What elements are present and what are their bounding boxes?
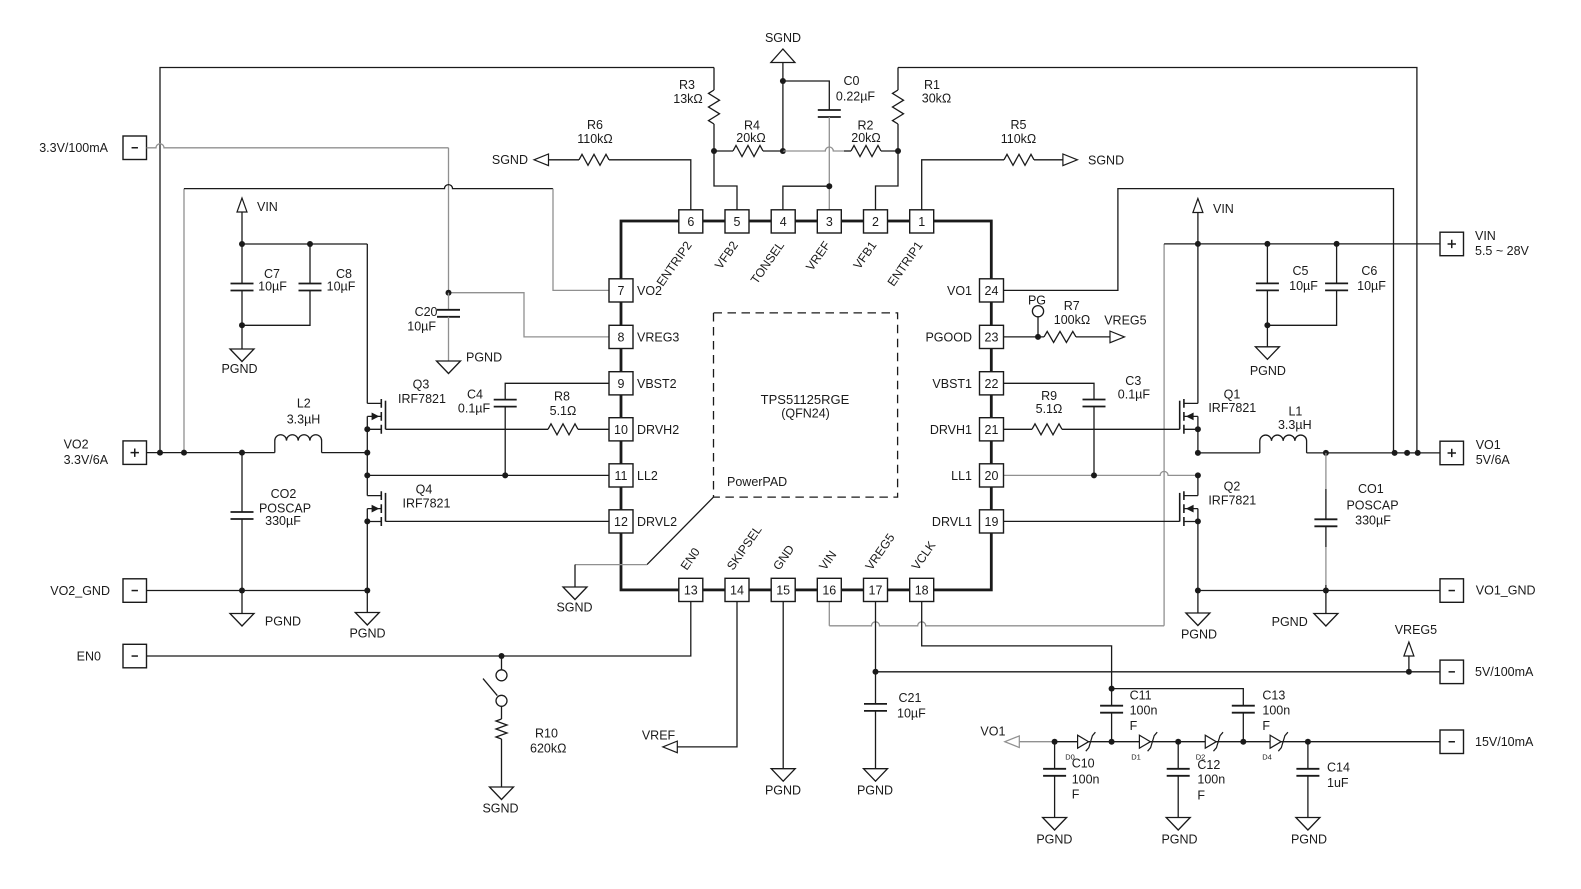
- wire L2 to switch node: [322, 452, 368, 454]
- resistor R10: [501, 706, 503, 719]
- wire PGOOD pin 23 to R7: [1003, 336, 1044, 338]
- svg-text:3.3µH: 3.3µH: [1278, 418, 1312, 432]
- svg-text:9: 9: [618, 377, 625, 391]
- svg-text:1uF: 1uF: [1327, 776, 1349, 790]
- svg-text:100kΩ: 100kΩ: [1054, 313, 1090, 327]
- node C3/LL1 junction: [1091, 472, 1097, 478]
- wire VO2_GND row: [147, 590, 368, 592]
- capacitor C7: [241, 244, 243, 284]
- capacitor C3: [1003, 383, 1094, 399]
- node C7 top: [239, 241, 245, 247]
- svg-text:VO1_GND: VO1_GND: [1476, 584, 1536, 598]
- PGND symbol below C21: [864, 769, 888, 782]
- capacitor C0: [783, 81, 829, 110]
- capacitor C13: [1232, 706, 1255, 713]
- wire TONSEL pin 4 to VREF: [783, 186, 829, 210]
- PGND symbol below Q2: [1197, 591, 1199, 614]
- wire VIN pin 16 to VIN rail (gray) with hops: [828, 602, 830, 626]
- IC pin 17 box: [864, 578, 888, 601]
- svg-text:15V/10mA: 15V/10mA: [1475, 735, 1534, 749]
- node Q4 source junction: [364, 518, 370, 524]
- IC U1 TPS51125RGE body: [621, 221, 991, 590]
- wire L1 to VO1 terminal: [1307, 452, 1440, 454]
- svg-text:10µF: 10µF: [897, 707, 926, 721]
- svg-text:10µF: 10µF: [407, 320, 436, 334]
- svg-text:VO1: VO1: [947, 284, 972, 298]
- svg-text:D4: D4: [1262, 753, 1272, 762]
- node D0 anode: [1052, 739, 1058, 745]
- svg-text:VIN: VIN: [257, 200, 278, 214]
- svg-text:110kΩ: 110kΩ: [1001, 132, 1037, 146]
- capacitor C10: [1054, 742, 1056, 769]
- svg-text:PGND: PGND: [1036, 832, 1072, 846]
- svg-text:CO1: CO1: [1358, 482, 1384, 496]
- capacitor C20: [448, 293, 450, 310]
- wire VO2 feedback top rail: [160, 68, 714, 453]
- wire 3.3V to C20 node (gray) with hop: [147, 144, 449, 148]
- svg-text:10µF: 10µF: [327, 280, 356, 294]
- svg-text:110kΩ: 110kΩ: [577, 132, 613, 146]
- svg-text:5.1Ω: 5.1Ω: [550, 404, 577, 418]
- wire R1 to VFB1 pin 2: [876, 151, 899, 210]
- svg-text:330µF: 330µF: [1355, 514, 1391, 528]
- svg-text:100n: 100n: [1130, 704, 1158, 718]
- svg-text:VO2: VO2: [637, 284, 662, 298]
- svg-text:PGND: PGND: [265, 615, 301, 629]
- svg-text:19: 19: [985, 515, 999, 529]
- wire VIN rail right: [1164, 243, 1440, 245]
- svg-text:SGND: SGND: [765, 31, 801, 45]
- svg-text:IRF7821: IRF7821: [403, 497, 451, 511]
- diode D1: [1139, 735, 1150, 748]
- node VO2 rail taps: [157, 450, 163, 456]
- node C13 bottom: [1240, 739, 1246, 745]
- IC pin 11 box: [609, 464, 633, 487]
- resistor R7: [1044, 331, 1076, 342]
- svg-text:VREG5: VREG5: [1395, 623, 1437, 637]
- svg-text:DRVL1: DRVL1: [932, 515, 972, 529]
- svg-text:10µF: 10µF: [1357, 279, 1386, 293]
- wire VO1 feedback top rail: [898, 68, 1417, 453]
- svg-text:C6: C6: [1361, 264, 1377, 278]
- IC pin 8 box: [609, 325, 633, 348]
- node LL2/switch junction: [364, 472, 370, 478]
- svg-text:VO2_GND: VO2_GND: [50, 584, 110, 598]
- VIN arrow symbol right: [1193, 199, 1203, 213]
- IC pin 13 box: [679, 578, 703, 601]
- resistor R4: [714, 150, 733, 152]
- resistor R6: [549, 159, 580, 161]
- svg-text:100n: 100n: [1197, 773, 1225, 787]
- svg-text:5V/100mA: 5V/100mA: [1475, 665, 1534, 679]
- IC pin 6 box: [679, 210, 703, 233]
- terminal VIN +: [1440, 232, 1464, 256]
- wire VREG3 node to pin 8 (gray): [449, 293, 610, 337]
- svg-text:Q2: Q2: [1224, 479, 1241, 493]
- svg-text:5.5 ~ 28V: 5.5 ~ 28V: [1475, 244, 1530, 258]
- svg-text:0.22µF: 0.22µF: [836, 90, 876, 104]
- svg-text:SGND: SGND: [1088, 154, 1124, 168]
- node L1/switch junction: [1195, 450, 1201, 456]
- svg-text:SGND: SGND: [482, 802, 518, 816]
- wire ENTRIP1 pin 1 to R5: [922, 160, 1004, 210]
- PGND symbol below C20: [437, 361, 461, 374]
- IC pin 4 box: [771, 210, 795, 233]
- svg-text:DRVL2: DRVL2: [637, 515, 677, 529]
- wire VO1 arrow to D0 (gray): [1019, 741, 1054, 743]
- svg-text:F: F: [1072, 788, 1080, 802]
- svg-text:C0: C0: [844, 74, 860, 88]
- svg-text:23: 23: [985, 331, 999, 345]
- svg-text:PGND: PGND: [349, 627, 385, 641]
- svg-text:C14: C14: [1327, 761, 1350, 775]
- svg-text:20kΩ: 20kΩ: [851, 131, 881, 145]
- resistor R9: [1003, 428, 1032, 430]
- svg-text:0.1µF: 0.1µF: [458, 402, 491, 416]
- svg-text:22: 22: [985, 377, 999, 391]
- wire VO2 row to L2: [147, 452, 275, 454]
- diode D2: [1205, 735, 1216, 748]
- PGND symbol below C10: [1043, 818, 1067, 831]
- svg-text:17: 17: [869, 584, 883, 598]
- svg-text:C20: C20: [415, 305, 438, 319]
- wire VO1 pin 24 feedback: [1003, 189, 1394, 453]
- svg-text:VREF: VREF: [642, 729, 676, 743]
- transistor Q2 IRF7821: [1184, 496, 1198, 522]
- node PG junction: [1035, 334, 1041, 340]
- svg-text:PGND: PGND: [1291, 832, 1327, 846]
- svg-text:TPS51125RGE: TPS51125RGE: [761, 392, 850, 407]
- IC pin 21 box: [980, 418, 1004, 441]
- svg-text:F: F: [1130, 719, 1138, 733]
- capacitor C14: [1307, 742, 1309, 769]
- transistor Q1 IRF7821: [1184, 403, 1198, 429]
- PGND symbol below C12: [1166, 818, 1190, 831]
- svg-text:PGND: PGND: [1250, 364, 1286, 378]
- resistor R5: [1004, 154, 1034, 165]
- SGND symbol below R10: [490, 787, 514, 800]
- svg-text:(QFN24): (QFN24): [781, 407, 830, 421]
- resistor R2 with wire hop over VREF: [783, 147, 844, 151]
- PG pull-up circle: [1037, 317, 1039, 337]
- IC pin 22 box: [980, 372, 1004, 395]
- wire LL2 pin 11 to switch node: [367, 474, 609, 476]
- svg-text:C13: C13: [1262, 689, 1285, 703]
- svg-text:PGND: PGND: [1161, 832, 1197, 846]
- transistor Q3 IRF7821: [367, 403, 381, 429]
- svg-text:100n: 100n: [1072, 773, 1100, 787]
- wire Q3 gate to R8: [386, 428, 549, 430]
- svg-text:R9: R9: [1041, 389, 1057, 403]
- PGND symbol below CO1: [1325, 591, 1327, 614]
- PGND symbol below C14: [1296, 818, 1320, 831]
- PGND symbol below C5/C6: [1255, 347, 1279, 360]
- IC pin 5 box: [725, 210, 749, 233]
- svg-text:CO2: CO2: [271, 487, 297, 501]
- svg-text:D1: D1: [1131, 753, 1141, 762]
- svg-text:C4: C4: [467, 388, 483, 402]
- node VREF/TONSEL junction: [826, 183, 832, 189]
- wire EN0 to switch: [501, 656, 503, 670]
- wire VIN rail to Q3 drain: [366, 244, 368, 403]
- wire C5 to PGND: [1266, 325, 1268, 347]
- svg-text:R5: R5: [1011, 118, 1027, 132]
- svg-text:R8: R8: [554, 390, 570, 404]
- IC pin 3 box: [817, 210, 841, 233]
- svg-text:5V/6A: 5V/6A: [1476, 453, 1511, 467]
- svg-text:C21: C21: [899, 691, 922, 705]
- wire C11 to C13 top rail: [1112, 689, 1244, 706]
- node VREG5/C21 junction: [873, 669, 879, 675]
- svg-text:10µF: 10µF: [258, 280, 287, 294]
- wire VREF net C0 to pin 3 (gray): [828, 117, 830, 210]
- svg-text:VO1: VO1: [1476, 438, 1501, 452]
- IC pin 12 box: [609, 510, 633, 533]
- svg-text:24: 24: [985, 284, 999, 298]
- svg-text:2: 2: [872, 215, 879, 229]
- node C14 top: [1305, 739, 1311, 745]
- IC pin 24 box: [980, 279, 1004, 302]
- svg-text:7: 7: [618, 284, 625, 298]
- svg-text:100n: 100n: [1262, 704, 1290, 718]
- svg-text:8: 8: [618, 331, 625, 345]
- IC U1 PowerPAD dashed outline: [714, 313, 898, 497]
- capacitor CO1 POSCAP: [1325, 453, 1327, 489]
- wire Q4 source to PGND row: [366, 521, 368, 590]
- node R3/R4 junction: [711, 148, 717, 154]
- wire DRVL1 pin 19 to Q2 gate: [1003, 520, 1180, 522]
- svg-text:Q4: Q4: [416, 483, 433, 497]
- svg-text:VIN: VIN: [1213, 202, 1234, 216]
- wire LL1 pin 20 to switch node (gray) with hop: [1003, 471, 1198, 475]
- node Q1 source junction: [1195, 426, 1201, 432]
- svg-text:C3: C3: [1125, 374, 1141, 388]
- svg-text:5.1Ω: 5.1Ω: [1036, 402, 1063, 416]
- node EN0 switch junction: [499, 653, 505, 659]
- terminal 5V/100mA -: [1440, 660, 1464, 684]
- node C4/LL2 junction: [502, 472, 508, 478]
- capacitor C21: [875, 672, 877, 704]
- svg-text:VBST1: VBST1: [932, 377, 972, 391]
- node Q2 source junction: [1195, 518, 1201, 524]
- node SGND/C0 junction: [780, 78, 786, 84]
- node C6 top: [1334, 241, 1340, 247]
- IC pin 19 box: [980, 510, 1004, 533]
- IC pin 23 box: [980, 325, 1004, 348]
- node Q1 drain tap: [1195, 241, 1201, 247]
- node Q4 source bottom: [364, 588, 370, 594]
- wire VIN arrow to rail: [1197, 213, 1199, 244]
- node CO2 bottom: [239, 588, 245, 594]
- svg-text:POSCAP: POSCAP: [1346, 499, 1398, 513]
- svg-text:PGND: PGND: [1181, 628, 1217, 642]
- wire Q4 gate to DRVL2 pin 12: [386, 520, 610, 522]
- svg-text:VO1: VO1: [980, 725, 1005, 739]
- IC pin 18 box: [910, 578, 934, 601]
- IC pin 15 box: [771, 578, 795, 601]
- svg-text:VREG3: VREG3: [637, 330, 679, 344]
- svg-text:Q3: Q3: [413, 378, 430, 392]
- svg-text:IRF7821: IRF7821: [398, 392, 446, 406]
- wire PowerPAD to SGND (gray): [575, 564, 647, 566]
- wire switch node to Q4 drain: [366, 453, 368, 496]
- node CO1 bottom: [1323, 588, 1329, 594]
- svg-text:PowerPAD: PowerPAD: [727, 475, 787, 489]
- svg-text:13kΩ: 13kΩ: [673, 92, 703, 106]
- svg-text:VREG5: VREG5: [1104, 313, 1146, 327]
- svg-text:PG: PG: [1028, 294, 1046, 308]
- svg-text:LL1: LL1: [951, 469, 972, 483]
- svg-text:30kΩ: 30kΩ: [922, 92, 952, 106]
- diode D0: [1078, 735, 1089, 748]
- svg-text:3: 3: [826, 215, 833, 229]
- node C5 bottom: [1264, 322, 1270, 328]
- node LL1/switch junction: [1195, 472, 1201, 478]
- svg-text:R6: R6: [587, 118, 603, 132]
- svg-text:DRVH1: DRVH1: [930, 423, 972, 437]
- svg-text:10µF: 10µF: [1289, 279, 1318, 293]
- svg-text:L2: L2: [297, 397, 311, 411]
- IC pin 10 box: [609, 418, 633, 441]
- svg-text:1: 1: [918, 215, 925, 229]
- wire VREG5 pin 17 to 5V terminal: [875, 602, 877, 672]
- svg-text:VBST2: VBST2: [637, 377, 677, 391]
- svg-text:R3: R3: [679, 78, 695, 92]
- wire R3 to VFB2 pin 5: [714, 151, 737, 210]
- inductor L2: [275, 435, 322, 453]
- terminal VO1_GND -: [1440, 579, 1464, 603]
- svg-text:13: 13: [684, 584, 698, 598]
- wire VO1_GND row: [1198, 590, 1440, 592]
- node R2/R1 junction: [895, 148, 901, 154]
- svg-text:L1: L1: [1288, 404, 1302, 418]
- wire GND pin 15 to PGND: [782, 602, 784, 769]
- switch S1 lever: [483, 679, 497, 696]
- svg-text:PGND: PGND: [466, 351, 502, 365]
- wire R6 to ENTRIP2 pin 6: [609, 160, 691, 210]
- inductor L1: [1198, 452, 1260, 454]
- wire Q2 source to PGND row: [1197, 521, 1199, 590]
- svg-text:6: 6: [687, 215, 694, 229]
- wire EN0 row to pin 13: [147, 602, 691, 656]
- wire SGND to R4/R2 junction: [782, 62, 784, 151]
- wire VCLK pin 18 to C11: [922, 602, 1112, 689]
- svg-text:15: 15: [776, 584, 790, 598]
- node SGND/R4/R2 junction: [780, 148, 786, 154]
- wire Q1 source to switch node: [1197, 429, 1199, 453]
- resistor R8: [548, 424, 578, 435]
- svg-text:14: 14: [730, 584, 744, 598]
- svg-text:C12: C12: [1197, 758, 1220, 772]
- svg-text:20: 20: [985, 469, 999, 483]
- node CO1 top: [1323, 450, 1329, 456]
- PGND symbol below Q4: [366, 591, 368, 613]
- wire switch node to Q2 drain: [1197, 475, 1199, 495]
- capacitor C11: [1111, 689, 1113, 706]
- switch S1 contacts: [496, 670, 507, 681]
- svg-text:330µF: 330µF: [265, 514, 301, 528]
- IC pin 14 box: [725, 578, 749, 601]
- VREF arrow symbol: [663, 741, 678, 753]
- SGND arrow right of R5: [1063, 154, 1078, 166]
- svg-text:PGND: PGND: [857, 784, 893, 798]
- IC pin 16 box: [817, 578, 841, 601]
- node Q3 source junction: [364, 426, 370, 432]
- capacitor CO2 POSCAP: [241, 453, 243, 512]
- svg-text:VO2: VO2: [64, 438, 89, 452]
- svg-text:620kΩ: 620kΩ: [530, 742, 566, 756]
- wire C7 to PGND: [241, 325, 243, 349]
- svg-text:3.3µH: 3.3µH: [287, 413, 321, 427]
- svg-text:VIN: VIN: [1475, 229, 1496, 243]
- IC pin 7 box: [609, 279, 633, 302]
- capacitor C5: [1266, 244, 1268, 284]
- IC pin 9 box: [609, 372, 633, 395]
- svg-text:R1: R1: [924, 78, 940, 92]
- node VREG5 arrow junction: [1406, 669, 1412, 675]
- wire VIN rail to Q1 drain: [1197, 244, 1199, 404]
- VREG5 arrow right of R7: [1110, 331, 1125, 343]
- PGND symbol below CO2: [241, 591, 243, 614]
- wire PowerPAD diagonal to SGND: [647, 497, 714, 564]
- capacitor C4: [505, 383, 609, 399]
- svg-text:PGOOD: PGOOD: [925, 330, 972, 344]
- svg-text:18: 18: [915, 584, 929, 598]
- wire Q3 source to switch node: [366, 429, 368, 452]
- node VO1 feedback taps: [1392, 450, 1398, 456]
- svg-text:C5: C5: [1293, 264, 1309, 278]
- svg-text:5: 5: [734, 215, 741, 229]
- node C20 top junction: [446, 290, 452, 296]
- svg-text:0.1µF: 0.1µF: [1118, 387, 1151, 401]
- wire SKIPSEL pin 14 to VREF arrow: [677, 602, 737, 747]
- svg-text:C11: C11: [1130, 689, 1152, 703]
- svg-text:10: 10: [614, 423, 628, 437]
- wire VO2 sense rail to pin 7: [183, 189, 185, 453]
- capacitor C6: [1336, 244, 1338, 284]
- transistor Q4 IRF7821: [367, 496, 381, 522]
- svg-text:R7: R7: [1064, 299, 1080, 313]
- resistor R1: [897, 68, 899, 91]
- svg-text:16: 16: [822, 584, 836, 598]
- node C11 top junction: [1109, 686, 1115, 692]
- svg-text:20kΩ: 20kΩ: [736, 131, 766, 145]
- svg-text:PGND: PGND: [765, 784, 801, 798]
- svg-text:PGND: PGND: [221, 362, 257, 376]
- node Q2/PGND junction: [1195, 588, 1201, 594]
- svg-text:IRF7821: IRF7821: [1208, 493, 1256, 507]
- IC pin 2 box: [864, 210, 888, 233]
- svg-text:4: 4: [780, 215, 787, 229]
- svg-text:EN0: EN0: [77, 649, 101, 663]
- node L2/switch junction: [364, 450, 370, 456]
- diode D4: [1270, 735, 1281, 748]
- node C11 bottom: [1109, 739, 1115, 745]
- svg-text:SGND: SGND: [556, 601, 592, 615]
- node C7 bottom: [239, 322, 245, 328]
- node C5 top: [1264, 241, 1270, 247]
- wire diode row to 15V terminal: [1055, 741, 1440, 743]
- svg-text:F: F: [1262, 719, 1270, 733]
- svg-text:11: 11: [615, 469, 628, 483]
- node C8 top: [307, 241, 313, 247]
- IC pin 1 box: [910, 210, 934, 233]
- VIN arrow symbol left: [237, 198, 247, 212]
- terminal VO1 +: [1440, 441, 1464, 465]
- svg-text:R10: R10: [535, 727, 558, 741]
- capacitor C12: [1177, 742, 1179, 769]
- svg-text:F: F: [1197, 789, 1205, 803]
